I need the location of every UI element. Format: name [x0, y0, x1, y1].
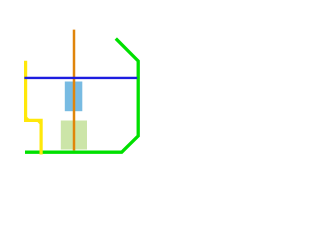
blue line (horizontal route) [24, 77, 137, 79]
orange line (vertical route) [73, 30, 76, 151]
yellow line (left route) [26, 61, 41, 155]
water area (light blue rectangle) [65, 82, 83, 112]
green line (right border route) [25, 39, 138, 153]
yellow inner fillet at left corner [27, 117, 29, 119]
yellow inner fillet at right corner [37, 122, 39, 124]
park area (light green rectangle) [61, 121, 87, 150]
